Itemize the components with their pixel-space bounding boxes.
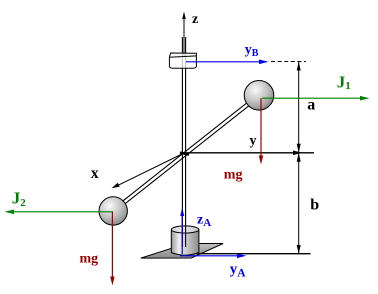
svg-text:x: x	[91, 165, 99, 182]
svg-text:mg: mg	[224, 168, 243, 183]
svg-text:yB: yB	[245, 43, 259, 59]
svg-text:z: z	[192, 12, 198, 27]
svg-text:J2: J2	[12, 189, 26, 209]
svg-text:yA: yA	[230, 262, 247, 280]
svg-text:zA: zA	[197, 212, 211, 229]
svg-text:y: y	[250, 133, 257, 148]
svg-text:J1: J1	[337, 72, 351, 92]
svg-text:mg: mg	[80, 252, 99, 267]
svg-text:b: b	[310, 197, 319, 214]
svg-text:a: a	[307, 97, 315, 114]
